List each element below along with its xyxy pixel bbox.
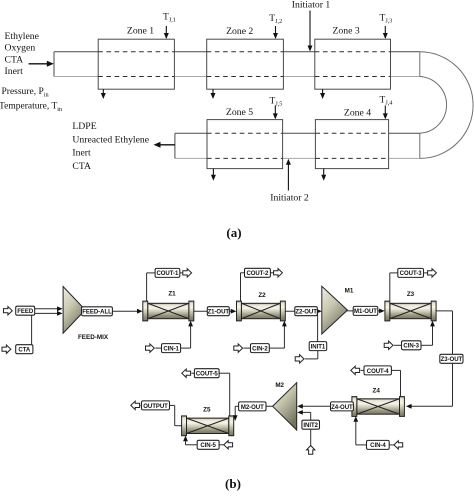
svg-text:M1: M1 bbox=[345, 288, 354, 295]
svg-text:Initiator 1: Initiator 1 bbox=[292, 0, 331, 10]
svg-text:CIN-4: CIN-4 bbox=[370, 443, 386, 449]
svg-text:(a): (a) bbox=[226, 225, 241, 240]
svg-text:FEED-MIX: FEED-MIX bbox=[78, 334, 109, 341]
svg-text:CTA: CTA bbox=[72, 161, 91, 172]
svg-text:Unreacted Ethylene: Unreacted Ethylene bbox=[72, 134, 149, 145]
svg-text:Z4: Z4 bbox=[373, 387, 381, 394]
svg-text:COUT-5: COUT-5 bbox=[196, 372, 219, 378]
svg-text:Z4-OUT: Z4-OUT bbox=[331, 405, 353, 411]
svg-text:(b): (b) bbox=[225, 476, 241, 491]
svg-text:Zone 1: Zone 1 bbox=[127, 25, 154, 36]
svg-text:FEED-ALL: FEED-ALL bbox=[82, 310, 112, 316]
svg-text:CIN-3: CIN-3 bbox=[403, 344, 419, 350]
svg-text:COUT-3: COUT-3 bbox=[400, 271, 423, 277]
svg-text:M1-OUT: M1-OUT bbox=[354, 309, 377, 315]
svg-text:COUT-1: COUT-1 bbox=[156, 271, 179, 277]
svg-text:Z2: Z2 bbox=[258, 292, 266, 299]
svg-text:Z1-OUT: Z1-OUT bbox=[208, 310, 230, 316]
svg-text:INIT1: INIT1 bbox=[311, 345, 326, 351]
svg-text:Zone 2: Zone 2 bbox=[226, 26, 253, 37]
svg-text:Initiator 2: Initiator 2 bbox=[270, 193, 309, 204]
svg-text:CTA: CTA bbox=[18, 348, 31, 354]
svg-text:Inert: Inert bbox=[72, 148, 91, 159]
svg-text:Zone 4: Zone 4 bbox=[344, 108, 371, 119]
svg-text:LDPE: LDPE bbox=[72, 121, 96, 132]
svg-text:INIT2: INIT2 bbox=[303, 423, 318, 429]
svg-text:Zone 3: Zone 3 bbox=[333, 26, 360, 37]
svg-text:Inert: Inert bbox=[5, 66, 24, 77]
svg-text:Z3: Z3 bbox=[407, 291, 415, 298]
svg-text:Pressure, Pin: Pressure, Pin bbox=[2, 87, 49, 98]
svg-text:OUTPUT: OUTPUT bbox=[143, 404, 168, 410]
svg-text:Ethylene: Ethylene bbox=[5, 31, 39, 42]
svg-text:COUT-4: COUT-4 bbox=[367, 369, 390, 375]
svg-text:Temperature, Tin: Temperature, Tin bbox=[0, 102, 62, 113]
svg-text:FEED: FEED bbox=[17, 309, 34, 315]
svg-text:Zone 5: Zone 5 bbox=[226, 107, 253, 118]
svg-text:CTA: CTA bbox=[5, 54, 24, 65]
svg-text:M2: M2 bbox=[275, 382, 284, 389]
svg-text:CIN-1: CIN-1 bbox=[163, 347, 179, 353]
svg-text:Z2-OUT: Z2-OUT bbox=[295, 310, 317, 316]
svg-text:Z5: Z5 bbox=[203, 406, 211, 413]
svg-text:Oxygen: Oxygen bbox=[5, 43, 36, 54]
svg-text:CIN-5: CIN-5 bbox=[200, 443, 216, 449]
svg-text:COUT-2: COUT-2 bbox=[246, 271, 269, 277]
svg-text:Z1: Z1 bbox=[168, 291, 176, 298]
svg-text:Z3-OUT: Z3-OUT bbox=[441, 357, 463, 363]
svg-text:CIN-2: CIN-2 bbox=[252, 347, 268, 353]
svg-text:M2-OUT: M2-OUT bbox=[241, 405, 264, 411]
